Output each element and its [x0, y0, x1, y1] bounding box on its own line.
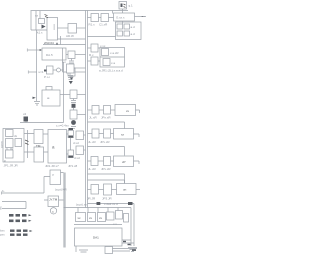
ground under vertical net [33, 97, 41, 105]
IC G1 wide box [114, 13, 135, 21]
svg-text:C1.xR: C1.xR [99, 23, 108, 27]
svg-text:xx: xx [89, 216, 93, 220]
svg-text:xx: xx [78, 216, 82, 220]
wire gray feeder band left of bottom module [63, 173, 65, 248]
row2 capacitor C22 [99, 129, 111, 144]
resistor R35 [116, 211, 129, 223]
svg-text:x.x: x.x [113, 222, 117, 226]
wire DA5 to R5 [66, 54, 68, 56]
wire bottom module mid rail [74, 224, 122, 226]
strip S1 boxes right of A1 [67, 128, 74, 158]
wire bottom module top rail [64, 208, 135, 247]
ground under R6 [70, 77, 74, 80]
wire left rails y201 y208 [0, 202, 26, 210]
wires XP1 to K boxes [24, 130, 34, 158]
wire DA1 bottom left drop [76, 246, 88, 252]
svg-text:JP1.x8: JP1.x8 [68, 164, 78, 168]
resistor R4 right of bus y61 [88, 57, 101, 65]
node P1 small box row [44, 66, 53, 79]
wire row4 top feed [88, 180, 125, 184]
row4 capacitor C24 [99, 184, 113, 201]
svg-text:DA1: DA1 [93, 236, 99, 240]
transistor VT1 above rail [119, 2, 133, 14]
wire bus to GB1 outline [88, 36, 116, 38]
row3 capacitor C23 [98, 157, 111, 172]
wire R3 to bus [74, 67, 86, 69]
wire VT5 connections [44, 173, 64, 194]
wire C2 to bus [77, 27, 86, 29]
wire row4 return below [88, 204, 135, 211]
svg-text:JR.JR: JR.JR [87, 197, 96, 201]
wire P1 loop junction [53, 68, 64, 72]
wire C1 to G1 [109, 11, 114, 18]
svg-text:d.xd: d.xd [73, 141, 79, 145]
svg-text:c.x=0.4xx: c.x=0.4xx [56, 124, 69, 128]
svg-text:R.x: R.x [89, 53, 94, 57]
row4 resistor R24 [87, 185, 99, 201]
wire row1 return [88, 122, 125, 129]
capacitor C3 under R3 with ground [68, 73, 73, 84]
wire arrow input at y50 [27, 49, 42, 52]
svg-text:x.da1.xx.d: x.da1.xx.d [104, 202, 118, 206]
svg-text:JPx.xR: JPx.xR [100, 140, 110, 144]
transistor T1 tall box [44, 15, 58, 46]
svg-text:AD.W: AD.W [66, 34, 74, 38]
wire long return y44.5 [43, 42, 86, 44]
svg-text:u=1: u=1 [39, 70, 44, 74]
row1 capacitor C21 [99, 106, 111, 120]
svg-text:conn: conn [0, 141, 4, 148]
svg-text:JL.xR: JL.xR [89, 116, 98, 120]
captions above bottom module [76, 202, 133, 207]
wire vertical net from U1 down [36, 30, 38, 101]
svg-text:ai.: ai. [47, 96, 50, 100]
svg-text:TM: TM [36, 144, 41, 148]
bottom module box row drops [78, 208, 118, 213]
resistor R5 [68, 51, 75, 59]
row2 IC D22 wide box [111, 129, 140, 140]
resistor R34 [107, 212, 118, 226]
svg-text:JPx.xR: JPx.xR [101, 116, 111, 120]
svg-text:G.xx.x: G.xx.x [116, 16, 125, 20]
relay K1 box [34, 130, 43, 144]
svg-text:n.n: n.n [62, 60, 67, 64]
terminal strip TS2 rows [0, 229, 33, 237]
svg-text:un: un [123, 188, 127, 192]
row1 resistor R21 [88, 106, 100, 120]
wire DA1 right outputs [122, 240, 134, 245]
svg-text:b-: b- [2, 189, 5, 193]
svg-text:JP1.JR.JR: JP1.JR.JR [4, 164, 19, 168]
svg-text:JR1.JR.x7: JR1.JR.x7 [45, 164, 59, 168]
wire DA2 to R7 [60, 94, 70, 96]
wire row3 return [88, 174, 125, 183]
bus main vertical supply pair [86, 11, 88, 208]
svg-text:pxx: pxx [0, 233, 5, 237]
wire R6 to bus [75, 71, 86, 73]
svg-text:xx: xx [126, 109, 130, 113]
svg-text:a.d: a.d [131, 25, 136, 29]
capacitor C2 box [66, 24, 77, 38]
svg-text:xx: xx [121, 133, 125, 137]
svg-text:q.1: q.1 [129, 4, 134, 8]
svg-text:J.L JR: J.L JR [5, 147, 14, 151]
connector XP1 block [0, 129, 24, 168]
wire vertical x63.5 [63, 62, 65, 123]
resistor R3 [62, 60, 74, 73]
resistor R2 right of bus y48 [88, 44, 101, 57]
resistor R1 top [88, 14, 99, 27]
wire top supply rail [31, 10, 129, 12]
svg-text:JPx.xR: JPx.xR [101, 167, 111, 171]
capacitor C1 top [99, 14, 109, 27]
wire G1 output with label W1 [135, 15, 147, 19]
wire JY link [44, 199, 64, 201]
svg-text:k1.x: k1.x [37, 31, 43, 35]
svg-text:d.xd: d.xd [74, 156, 80, 160]
diode cluster VD1 left of T1 [37, 11, 46, 35]
wire R7 to bus [77, 94, 86, 96]
svg-text:x.a.xR: x.a.xR [110, 51, 119, 55]
capacitor C7 stack [71, 99, 76, 111]
row4 IC D24 wide box [112, 184, 141, 195]
resistor R33 [98, 213, 106, 222]
svg-text:xP: xP [122, 160, 126, 164]
IC A1 big box [48, 130, 67, 164]
svg-text:R1.x: R1.x [89, 23, 96, 27]
svg-text:=--: =-- [142, 15, 146, 19]
svg-text:a.d: a.d [131, 32, 136, 36]
ground marks right column [128, 248, 137, 252]
row1 IC D21 wide box [111, 105, 140, 116]
terminal X2 with wire y122.5 [20, 112, 64, 123]
svg-text:(a.pt)/4R: (a.pt)/4R [55, 188, 68, 192]
wire R5 to bus [75, 54, 86, 56]
IC DA2 wide box with tab [42, 87, 60, 107]
motor M1 circle [50, 208, 56, 214]
resistor R7 [70, 90, 77, 99]
svg-text:dx: dx [14, 134, 18, 138]
wire R8 to bus [77, 114, 86, 116]
resistor R10 [73, 131, 86, 145]
transistor VT5 lower-left box [50, 170, 61, 185]
battery GB1 outline box [116, 21, 142, 40]
meter P2 two-row box [100, 44, 125, 67]
svg-text:xx: xx [99, 216, 103, 220]
relay JY box [48, 196, 59, 207]
svg-text:P o.i: P o.i [44, 75, 50, 79]
IC DA5 wide box [42, 48, 66, 60]
terminal strip TS1 rows [9, 214, 32, 222]
node input stub terminal [28, 70, 44, 74]
resistor R6 [68, 68, 75, 76]
IC DA1 big box [75, 228, 123, 246]
resistor R31 [76, 213, 86, 222]
svg-text:ux: ux [35, 14, 39, 18]
wire row2 return [88, 147, 125, 156]
resistor R32 [88, 213, 96, 222]
resistor R8 [70, 110, 77, 119]
wire lower pair to bus [58, 36, 86, 45]
svg-text:x.a: x.a [111, 61, 115, 65]
svg-text:x2: x2 [23, 112, 27, 116]
svg-text:JP3.JR: JP3.JR [102, 197, 113, 201]
row2 resistor R22 [88, 129, 100, 144]
connector X3 bottom [105, 247, 137, 254]
wire left rail B1 y193 [2, 189, 45, 195]
resistor R11 [74, 146, 86, 160]
wire K1 to A1 [43, 134, 48, 152]
capacitor C5 stack under R5 [69, 59, 74, 69]
relay K2 box [34, 147, 44, 162]
wire branch x62.5 [63, 48, 69, 72]
wire input branch verticals top-left [31, 11, 47, 30]
svg-text:bx: bx [0, 206, 3, 210]
svg-text:a.JR1.(JL).x.a.a.d: a.JR1.(JL).x.a.a.d [99, 69, 123, 73]
svg-text:(a.pt).xx: (a.pt).xx [76, 203, 87, 207]
svg-text:JL.xR: JL.xR [88, 140, 97, 144]
svg-text:JL.xR: JL.xR [88, 167, 97, 171]
capacitor C8 polarized with ground [71, 120, 76, 128]
svg-text:DA.5: DA.5 [46, 53, 53, 57]
wire T1 to C2 [58, 27, 69, 29]
row3 resistor R23 [88, 157, 99, 172]
svg-text:JY.TM: JY.TM [49, 198, 58, 202]
row3 IC D23 wide box [111, 156, 140, 167]
